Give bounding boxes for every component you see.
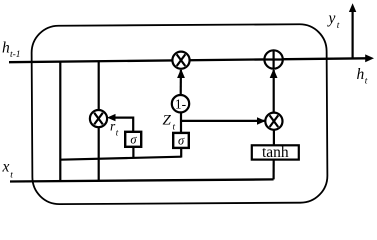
wire z_t branch to candidate multiplier [180,120,265,122]
label Z_t [163,113,176,133]
adder circle [264,50,282,68]
svg-text:tanh: tanh [262,144,289,161]
tanh box [252,144,299,161]
wire input bus to sigma gates [60,157,181,160]
label y_t [327,10,340,31]
wire x_t horizontal line [10,179,274,181]
svg-text:x: x [2,159,10,176]
svg-text:t: t [173,123,176,133]
wire tanh bottom to x_t line [273,159,275,179]
arrowhead into adder [270,69,278,78]
wire vertical tap at x=99 through reset multiplier [98,61,100,181]
wire sigma2 bottom drop [180,148,182,158]
multiplier circle top (1-z gate) [172,52,189,69]
cell body rounded rectangle [31,24,327,204]
svg-text:Z: Z [163,113,172,129]
wire sigma1 to reset multiplier [110,118,133,132]
svg-text:t: t [10,171,13,181]
wire sigma2 top to 1- circle [180,113,182,134]
arrowhead into candidate multiplier [257,117,266,125]
wire y_t vertical arrow line [352,10,354,59]
svg-text:t: t [365,77,368,87]
wire 1- circle to top multiplier [180,70,182,95]
label x_t [2,159,14,181]
wire vertical tap at x=60 [59,62,61,181]
label r_t [110,119,119,138]
svg-text:h: h [357,66,365,83]
svg-text:σ: σ [178,134,185,148]
wire sigma1 bottom drop [132,147,134,158]
one-minus circle [172,95,189,112]
label h(t-1) [2,40,21,61]
svg-text:t: t [337,21,340,31]
svg-text:y: y [327,10,336,27]
reset multiplier circle [90,110,107,127]
wire candidate multiplier to adder [273,70,275,113]
sigma box 1 (reset gate) [125,132,141,147]
arrowhead h_t output [365,54,374,62]
svg-text:1-: 1- [175,96,187,111]
arrowhead y_t output [349,3,356,12]
svg-text:t-1: t-1 [10,50,21,60]
label h_t [357,66,368,87]
sigma box 2 (update gate) [173,133,189,148]
arrowhead into top multiplier [177,69,185,78]
wire candidate multiplier to tanh [273,130,275,146]
wire h(t-1) horizontal line [9,58,367,62]
svg-text:σ: σ [130,133,137,147]
candidate multiplier circle [265,113,282,130]
svg-text:h: h [2,40,10,57]
svg-text:t: t [116,128,119,138]
arrowhead into reset multiplier [107,114,116,121]
